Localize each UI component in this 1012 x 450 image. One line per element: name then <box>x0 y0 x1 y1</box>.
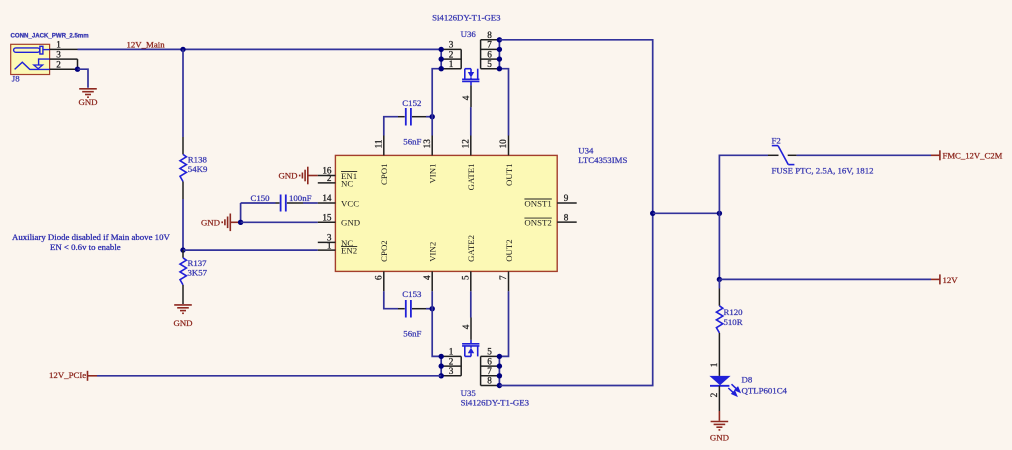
power port 12V_PCIe bracket <box>88 371 98 381</box>
pin 15 GND <box>318 221 336 223</box>
svg-text:1: 1 <box>449 347 454 357</box>
pin names U34 bottom (rotated) <box>379 235 514 262</box>
svg-text:12: 12 <box>461 139 471 149</box>
U35 MOSFET symbol <box>462 344 479 357</box>
svg-text:VCC: VCC <box>341 198 359 208</box>
svg-text:OUT1: OUT1 <box>504 164 514 186</box>
svg-text:11: 11 <box>374 139 384 148</box>
wire up to fuse row <box>719 155 768 213</box>
pin 1 of J8 <box>50 48 78 50</box>
svg-text:8: 8 <box>487 30 492 40</box>
U35 left pins 1,2,3 <box>441 356 461 375</box>
svg-text:GND: GND <box>278 171 297 181</box>
wire fuse to FMC port <box>797 154 931 156</box>
pin 3 NC <box>318 241 336 243</box>
wire R138 to junction <box>182 199 184 250</box>
svg-text:5: 5 <box>487 347 492 357</box>
wire EN2 to U34 pin 1 <box>183 249 318 251</box>
pin 6 CPO2 stub <box>383 271 385 291</box>
svg-text:CPO1: CPO1 <box>379 164 389 186</box>
junction C150/GND node <box>238 220 243 225</box>
U35 right rail wire <box>498 356 500 385</box>
LED pin 2 wire <box>718 386 720 411</box>
svg-text:Si4126DY-T1-GE3: Si4126DY-T1-GE3 <box>432 13 501 23</box>
wire U35 pin 8 to right bus <box>499 213 652 385</box>
wire U36 pin 8 to right bus <box>499 40 652 214</box>
pin 7 OUT2 stub <box>508 271 510 291</box>
pin 16 EN1 <box>318 175 336 177</box>
svg-text:4: 4 <box>422 275 432 280</box>
svg-text:GND: GND <box>341 218 360 228</box>
junction C153/VIN2 node <box>430 306 435 311</box>
svg-text:3: 3 <box>449 40 454 50</box>
wire down to R138 <box>182 49 184 137</box>
svg-text:56nF: 56nF <box>403 136 421 146</box>
pin 10 OUT1 stub <box>508 136 510 156</box>
resistor R137 <box>182 250 184 258</box>
svg-text:C150: C150 <box>251 193 271 203</box>
wire 12V row <box>719 278 931 280</box>
wire to GND <box>78 69 89 88</box>
svg-text:1: 1 <box>327 240 332 250</box>
U36 gate pin 4 <box>470 81 472 85</box>
wire GND to pin 15 <box>241 221 318 223</box>
pin names U34 left <box>341 171 360 256</box>
LED D8 QTLP601C4 <box>709 376 730 385</box>
wire bus to output column <box>653 212 720 214</box>
svg-text:1: 1 <box>709 362 719 367</box>
svg-text:C152: C152 <box>402 98 421 108</box>
svg-text:FUSE PTC, 2.5A, 16V, 1812: FUSE PTC, 2.5A, 16V, 1812 <box>772 166 874 176</box>
wire GATE2 <box>470 291 472 317</box>
svg-text:C153: C153 <box>402 289 422 299</box>
svg-text:4: 4 <box>461 324 471 329</box>
svg-text:D8: D8 <box>742 375 753 385</box>
pin 8 ONST2 <box>557 221 577 223</box>
ground GND at D8 <box>711 422 729 430</box>
pin 12 GATE1 stub <box>470 136 472 156</box>
wire C150 down to GND rail <box>240 203 242 222</box>
svg-text:LTC4353IMS: LTC4353IMS <box>578 155 627 165</box>
U35 right pins 5,6,7,8 <box>481 356 500 385</box>
junction output column node <box>717 211 722 216</box>
svg-text:9: 9 <box>564 193 569 203</box>
svg-text:U36: U36 <box>461 29 477 39</box>
svg-text:GND: GND <box>78 97 97 107</box>
svg-text:QTLP601C4: QTLP601C4 <box>742 385 788 395</box>
U36 right rail wire <box>498 40 500 69</box>
svg-text:12V_PCIe: 12V_PCIe <box>49 370 86 380</box>
svg-text:NC: NC <box>341 178 353 188</box>
svg-text:2: 2 <box>449 49 454 59</box>
wire down to 12V row <box>718 213 720 279</box>
junction J8 ground node <box>75 67 80 72</box>
svg-text:12V_Main: 12V_Main <box>127 40 166 50</box>
wire 12V_Main <box>78 48 442 50</box>
svg-text:100nF: 100nF <box>289 193 312 203</box>
wire 12V_PCIe to U35 pin 3 <box>97 375 441 377</box>
svg-text:VIN2: VIN2 <box>428 242 438 262</box>
svg-text:R137: R137 <box>188 258 208 268</box>
svg-text:7: 7 <box>487 40 492 50</box>
svg-text:6: 6 <box>487 49 492 59</box>
svg-text:Si4126DY-T1-GE3: Si4126DY-T1-GE3 <box>461 398 530 408</box>
connector J8 body <box>11 44 50 74</box>
svg-text:EN < 0.6v to enable: EN < 0.6v to enable <box>50 242 121 252</box>
svg-text:2: 2 <box>327 173 332 183</box>
pin 9 ONST1 <box>557 202 577 204</box>
svg-text:1: 1 <box>449 59 454 69</box>
wire VIN2 <box>432 291 441 356</box>
svg-text:GND: GND <box>710 433 729 443</box>
junction EN2 node <box>180 247 185 252</box>
U35 gate pin 4 <box>470 340 472 344</box>
junction 12V_Main node <box>180 47 185 52</box>
svg-text:R120: R120 <box>724 307 744 317</box>
pin 13 VIN1 stub <box>431 136 433 156</box>
svg-text:J8: J8 <box>12 74 20 84</box>
power port FMC_12V_C2M <box>931 150 940 160</box>
svg-text:ONST2: ONST2 <box>524 218 551 228</box>
svg-text:Auxiliary Diode disabled if Ma: Auxiliary Diode disabled if Main above 1… <box>12 232 170 242</box>
pin 4 VIN2 stub <box>431 271 433 291</box>
svg-text:2: 2 <box>709 392 719 397</box>
svg-text:5: 5 <box>461 275 471 280</box>
svg-text:FMC_12V_C2M: FMC_12V_C2M <box>943 151 1003 161</box>
ground GND sideways at pin 16 <box>300 167 318 185</box>
pin 1 EN2 <box>318 249 336 251</box>
U36 left rail wire <box>440 49 442 68</box>
svg-text:CPO2: CPO2 <box>379 240 389 262</box>
svg-text:3: 3 <box>56 49 61 59</box>
pin 14 VCC <box>318 202 336 204</box>
U36 MOSFET symbol <box>462 69 479 82</box>
op-amp U34 body LTC4353IMS <box>335 155 557 271</box>
U36 right pins 8,7,6,5 <box>481 40 500 69</box>
svg-text:R138: R138 <box>188 154 208 164</box>
pin 2 NC <box>318 182 336 184</box>
svg-text:GND: GND <box>173 318 192 328</box>
ground GND at J8 <box>79 89 97 97</box>
svg-text:VIN1: VIN1 <box>428 164 438 184</box>
wire OUT1 <box>499 69 508 136</box>
pin 3 of J8 <box>50 58 78 60</box>
svg-text:OUT2: OUT2 <box>504 239 514 261</box>
svg-text:1: 1 <box>56 40 61 50</box>
power port 12V <box>931 274 940 284</box>
svg-text:15: 15 <box>322 213 332 223</box>
ground GND sideways at pin 15 <box>222 214 240 232</box>
svg-text:F2: F2 <box>772 136 781 146</box>
svg-text:4: 4 <box>461 95 471 100</box>
svg-text:6: 6 <box>487 356 492 366</box>
svg-text:56nF: 56nF <box>403 328 421 338</box>
U35 left rail wire <box>440 356 442 375</box>
svg-text:510R: 510R <box>724 317 743 327</box>
svg-text:2: 2 <box>56 59 61 69</box>
pin 5 GATE2 stub <box>470 271 472 291</box>
svg-text:6: 6 <box>374 275 384 280</box>
svg-text:8: 8 <box>487 376 492 386</box>
svg-text:U35: U35 <box>461 388 477 398</box>
svg-text:3K57: 3K57 <box>188 268 208 278</box>
wire pin3 to pin2 <box>77 59 79 69</box>
svg-text:14: 14 <box>322 193 332 203</box>
svg-text:3: 3 <box>449 366 454 376</box>
svg-text:GATE2: GATE2 <box>466 235 476 262</box>
svg-text:10: 10 <box>498 139 508 149</box>
svg-text:2: 2 <box>449 356 454 366</box>
junction C152/VIN1 node <box>430 114 435 119</box>
pin 11 CPO1 stub <box>383 136 385 156</box>
resistor R120 <box>718 279 720 288</box>
svg-text:54K9: 54K9 <box>188 164 208 174</box>
wire OUT2 <box>499 291 508 356</box>
pin names U34 right <box>524 198 551 227</box>
svg-text:7: 7 <box>487 366 492 376</box>
svg-text:CONN_JACK_PWR_2.5mm: CONN_JACK_PWR_2.5mm <box>11 33 90 40</box>
svg-text:GATE1: GATE1 <box>466 164 476 191</box>
ground GND at R137 <box>174 305 192 313</box>
svg-text:8: 8 <box>564 212 569 222</box>
U36 left pins 3,2,1 <box>441 49 461 68</box>
svg-text:ONST1: ONST1 <box>524 198 551 208</box>
wire GATE1 <box>470 107 472 135</box>
svg-text:GND: GND <box>201 218 220 228</box>
svg-text:12V: 12V <box>943 275 959 285</box>
junction 12V node <box>717 277 722 282</box>
resistor R138 <box>182 137 184 154</box>
pin names U34 top (rotated) <box>379 164 514 191</box>
wire VIN1 <box>432 69 441 136</box>
pin 2 of J8 <box>50 68 78 70</box>
svg-text:7: 7 <box>498 275 508 280</box>
svg-text:5: 5 <box>487 59 492 69</box>
svg-text:13: 13 <box>422 139 432 149</box>
junction right bus node <box>650 211 655 216</box>
